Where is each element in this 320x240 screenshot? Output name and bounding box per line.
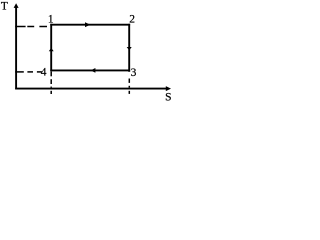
process line 3-4 (bottom edge)	[50, 69, 130, 71]
arrow 2→3 (downward on right edge)	[127, 47, 132, 50]
tick below S-axis under node 4	[50, 91, 52, 94]
svg-text:1: 1	[48, 14, 54, 26]
arrow 4→1 (upward on left edge)	[49, 48, 54, 51]
y-axis arrowhead	[14, 3, 19, 8]
svg-text:S: S	[165, 91, 171, 103]
dashed guide from node 4 down to S-axis	[50, 72, 52, 77]
svg-text:4: 4	[41, 67, 47, 79]
process line 2-3 (right edge)	[128, 24, 130, 72]
process line 4-1 (left edge)	[50, 24, 52, 72]
svg-text:3: 3	[131, 67, 137, 79]
svg-text:2: 2	[129, 14, 135, 26]
dashed guide from T-axis to node 4 (tick + dashes)	[15, 71, 24, 73]
arrow 1→2 (rightward on top edge)	[85, 22, 90, 27]
x-axis (S)	[15, 88, 168, 90]
svg-text:T: T	[1, 0, 8, 12]
dashed guide from node 3 down to S-axis	[128, 79, 130, 83]
arrow 3→4 (leftward on bottom edge)	[91, 68, 96, 73]
y-axis (T)	[15, 6, 17, 90]
tick below S-axis under node 3	[128, 91, 130, 94]
process line 1-2 (top edge)	[50, 24, 130, 26]
x-axis arrowhead	[166, 86, 171, 91]
dashed guide from T-axis to node 1 (tick + dashes)	[15, 26, 25, 28]
